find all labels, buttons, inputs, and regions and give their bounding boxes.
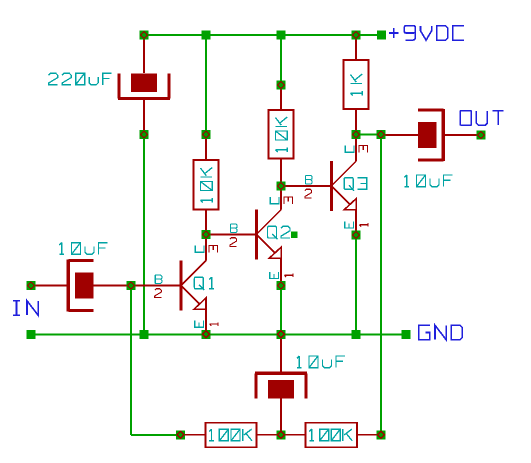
capacitor C3 10uF bypass: [255, 372, 307, 375]
wire VCC to 10K R3 column: [280, 35, 282, 85]
wire Q3 emitter to GND rail: [355, 235, 357, 334]
net label +9VDC: [389, 26, 464, 40]
wire GND rail: [31, 333, 406, 335]
transistor Q3 label: [344, 178, 367, 191]
capacitor C1 220uF: [118, 97, 170, 100]
wire Q1 collector to Q2 base: [206, 234, 255, 236]
transistor Q2 emitter pin label E: [270, 272, 279, 279]
wire +9VDC top rail: [144, 34, 382, 36]
wire R3 bottom lead: [280, 159, 282, 187]
junction junction Q3 emitter on GND rail: [352, 330, 361, 339]
wire node IN2 to Q1 base: [131, 285, 180, 287]
wire Q3 collector lead: [355, 135, 357, 162]
junction node R4-R5 / C3 bottom: [277, 430, 286, 439]
wire Q3 emitter lead: [355, 210, 357, 235]
resistor R1 value label 1K: [350, 74, 362, 96]
net label IN: [13, 301, 38, 315]
junction node OUT terminal: [477, 131, 486, 140]
junction junction C1 negative on GND rail: [140, 330, 149, 339]
wire R1 top lead: [355, 35, 357, 60]
wire C3 bottom lead: [280, 399, 282, 436]
resistor R4 value label 100K: [209, 429, 252, 441]
wire Q2 emitter lead: [280, 258, 282, 285]
wire Q1 collector lead: [205, 235, 207, 261]
resistor R1 1K: [344, 60, 369, 109]
transistor Q1 collector pin number 3: [209, 246, 218, 253]
transistor Q2 label: [268, 226, 291, 239]
junction junction VCC / R3 column: [277, 31, 286, 40]
wire C2 to node IN2: [94, 285, 132, 287]
wire R3 top lead: [280, 85, 282, 110]
transistor Q3 base pin label B: [306, 175, 313, 184]
resistor R4 100K: [206, 423, 257, 448]
transistor Q1 emitter pin number 1: [209, 322, 218, 325]
junction junction GND rail left end: [27, 330, 36, 339]
wire GND rail to C3 top: [280, 334, 282, 373]
wire Q2 collector to Q3 base: [281, 185, 330, 187]
capacitor C2 value label 10uF: [59, 243, 107, 255]
junction node Q2 emitter: [277, 281, 286, 290]
resistor R3 value label 10K: [275, 117, 287, 152]
junction node R3 top: [277, 81, 286, 90]
wire OUT node to C4: [381, 134, 419, 136]
wire R4 left lead: [181, 434, 206, 436]
junction node IN terminal: [27, 281, 36, 290]
transistor Q1 base pin label B: [155, 275, 162, 284]
wire R2 bottom lead: [205, 210, 207, 235]
junction node Q1 emitter on GND rail: [202, 330, 211, 339]
junction node Q2 collector / R3 bottom: [277, 182, 286, 191]
junction node IN2 bias tap: [127, 281, 136, 290]
wire Q1 emitter lead: [205, 309, 207, 334]
wire IN to C2: [31, 285, 68, 287]
node marker near Q2 label: [291, 231, 298, 238]
junction node C1 positive on VCC rail: [140, 31, 149, 40]
transistor Q3 emitter pin label E: [345, 221, 354, 228]
junction node C1 negative: [140, 130, 149, 139]
transistor Q3 base pin number 2: [305, 189, 312, 198]
resistor R5 value label 100K: [309, 429, 352, 441]
wire C4 to OUT pin: [443, 134, 481, 136]
junction node R1 top on VCC rail: [352, 31, 361, 40]
junction node R4 left: [176, 430, 185, 439]
transistor Q1 emitter pin label E: [195, 321, 204, 328]
wire OUT node down to R5: [380, 135, 382, 436]
wire R1 bottom lead: [355, 109, 357, 135]
junction node R2 top: [202, 130, 211, 139]
capacitor C4 value label 10uF: [404, 175, 452, 187]
capacitor C3 value label 10uF: [297, 356, 345, 368]
transistor Q2: [255, 210, 258, 260]
resistor R3 10K: [269, 110, 294, 159]
transistor Q3: [330, 161, 333, 211]
transistor Q2 emitter pin number 1: [284, 274, 293, 277]
wire Q2 emitter to GND rail: [280, 286, 282, 335]
junction node Q3 emitter: [352, 231, 361, 240]
wire Q2 collector lead: [280, 186, 282, 210]
junction node R5 right / OUT feedback: [377, 430, 386, 439]
capacitor C4 10uF output coupling: [442, 109, 445, 161]
wire R4 right lead to node: [257, 434, 282, 436]
transistor Q1 collector pin label C: [195, 246, 204, 253]
junction node C3 top on GND rail: [277, 330, 286, 339]
junction junction GND rail right end: [402, 330, 411, 339]
transistor Q2 base pin label B: [231, 224, 238, 233]
wire Q3 collector node horizontal: [356, 134, 381, 136]
transistor Q2 base pin number 2: [230, 238, 237, 247]
wire R2 top lead: [205, 135, 207, 161]
junction junction VCC / R2 column: [202, 31, 211, 40]
wire C1 positive lead: [143, 35, 145, 73]
junction node OUT net left: [377, 130, 386, 139]
transistor Q1 base pin number 2: [155, 289, 162, 298]
net label OUT: [460, 111, 503, 125]
transistor Q3 emitter pin number 1: [359, 223, 368, 226]
junction junction VCC rail end at +9VDC label: [377, 31, 386, 40]
transistor Q2 collector pin label C: [270, 197, 279, 204]
junction node Q3 collector / R1 bottom: [352, 130, 361, 139]
transistor Q1 label: [194, 277, 214, 290]
junction node Q1 collector / R2 bottom: [202, 230, 211, 239]
wire VCC to 10K R2 column: [205, 35, 207, 135]
resistor R5 100K: [306, 423, 358, 448]
capacitor C1 value label 220uF: [49, 73, 112, 85]
transistor Q1: [180, 261, 183, 311]
transistor Q2 collector pin number 3: [284, 197, 293, 204]
transistor Q3 collector pin number 3: [359, 146, 368, 153]
wire C1 negative lead: [143, 99, 145, 135]
wire IN node down to bias divider: [130, 286, 132, 435]
wire 220uF negative down to ground rail: [143, 135, 145, 335]
wire node to R5 left lead: [281, 434, 306, 436]
net label GND: [419, 325, 462, 339]
wire R5 right lead: [357, 434, 381, 436]
wire bottom left horizontal to R4: [131, 434, 181, 436]
transistor Q3 collector pin label C: [345, 146, 354, 153]
capacitor C2 10uF input coupling: [67, 260, 70, 312]
resistor R2 10K: [194, 160, 219, 210]
resistor R2 value label 10K: [200, 168, 212, 203]
